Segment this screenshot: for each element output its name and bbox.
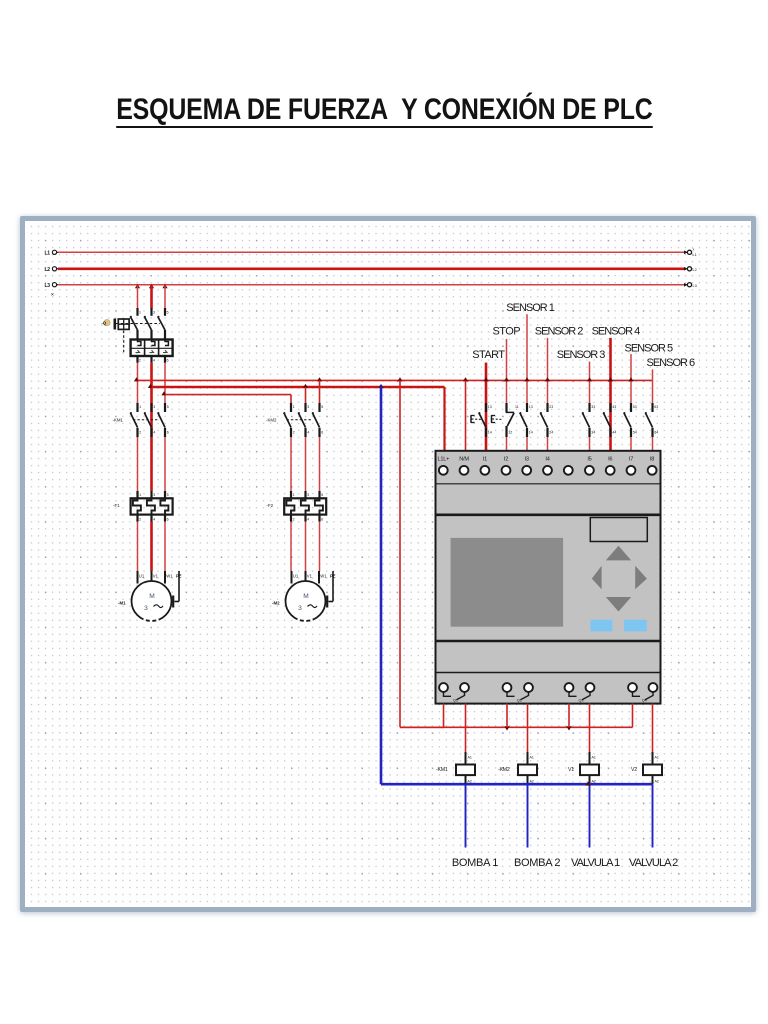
junction on L3 rail pole 2 (149, 284, 154, 288)
PLC nav button left (592, 566, 602, 590)
junction feed A at SENSOR 1 (524, 377, 529, 381)
svg-text:1: 1 (139, 493, 141, 497)
wire SENSOR 6 to contact (652, 369, 654, 403)
label SENSOR 1 (506, 302, 555, 314)
svg-text:1: 1 (293, 493, 295, 497)
svg-text:1: 1 (293, 405, 295, 409)
svg-text:5: 5 (167, 311, 169, 315)
svg-text:4: 4 (307, 518, 309, 522)
contact S7 SENSOR 5 (623, 403, 636, 437)
svg-text:SENSOR 3: SENSOR 3 (557, 349, 606, 361)
PLC module U1 body (436, 451, 661, 704)
PLC key ESC blue (591, 620, 613, 632)
contact S6 SENSOR 4 (603, 403, 616, 437)
label SENSOR 5 (625, 343, 674, 355)
svg-text:BOMBA 2: BOMBA 2 (514, 857, 560, 869)
label START (472, 349, 505, 361)
label SENSOR 2 (535, 326, 584, 338)
PLC output relay Q2 (503, 683, 533, 702)
svg-text:4: 4 (153, 359, 155, 363)
svg-text:N/M: N/M (459, 457, 469, 463)
PLC LCD display (451, 538, 563, 627)
junction feed A at START (483, 377, 488, 381)
svg-text:Q2: Q2 (517, 699, 522, 703)
coil -KM2 label (498, 767, 510, 773)
svg-text:4: 4 (153, 431, 155, 435)
junction feed A at SENSOR 2 (545, 377, 550, 381)
title text (0, 93, 768, 127)
svg-text:-M1: -M1 (118, 601, 126, 606)
svg-text:6: 6 (167, 359, 169, 363)
wire feed line B horizontal (152, 386, 445, 389)
junction feed line B at pole2 (148, 384, 153, 388)
contactor KM2 linkage (287, 419, 313, 421)
wire feed line A horizontal (138, 379, 653, 381)
svg-text:3: 3 (153, 405, 155, 409)
wire output common bus (400, 726, 633, 728)
label VALVULA 2 (629, 857, 678, 869)
contactor KM2 label (266, 417, 277, 422)
wire feed to KM2 pole3 (319, 380, 321, 403)
wire KM1 pole1 to F1 (137, 437, 139, 491)
svg-text:L1L+: L1L+ (437, 457, 449, 463)
PLC output relay Q3 (565, 683, 595, 702)
PLC output relay Q4 (628, 683, 657, 702)
breaker Q1 bottom pins (138, 356, 169, 363)
overload relay F1 (131, 491, 173, 522)
svg-text:SENSOR 1: SENSOR 1 (506, 302, 555, 314)
svg-text:2: 2 (139, 431, 141, 435)
svg-text:L1: L1 (693, 253, 697, 257)
svg-text:14: 14 (488, 431, 492, 435)
wire SENSOR 2 to contact (547, 338, 549, 403)
PLC nav button down (606, 597, 631, 612)
wire L2 rail (58, 267, 685, 270)
svg-text:STOP: STOP (493, 326, 521, 338)
coil -KM2 (518, 752, 537, 784)
wire START contact to PLC input (485, 437, 488, 451)
junction neutral bus (585, 781, 590, 785)
svg-text:SENSOR 2: SENSOR 2 (535, 326, 584, 338)
junction feed A output riser (397, 377, 402, 381)
contactor KM1 pole 2 (144, 403, 155, 437)
svg-text:L2: L2 (45, 267, 51, 273)
wire neutral bus blue (466, 783, 653, 786)
svg-text:4: 4 (153, 518, 155, 522)
svg-text:VALVULA 1: VALVULA 1 (571, 857, 620, 869)
contact S4 SENSOR 2 (540, 403, 553, 437)
wire F1 to motor M1 W1 (164, 522, 166, 572)
svg-text:V1: V1 (153, 574, 159, 579)
svg-text:23: 23 (549, 405, 553, 409)
PLC output relay Q1 (439, 683, 469, 702)
junction feed line A at pole1 (134, 377, 139, 381)
svg-text:A1: A1 (468, 756, 472, 760)
junction feed A at SENSOR 3 (587, 377, 592, 381)
svg-text:-F1: -F1 (113, 503, 120, 508)
wire KM2 pole3 to F2 (319, 437, 321, 491)
wire L1 rail (58, 251, 684, 253)
svg-text:U1: U1 (293, 574, 299, 579)
contactor KM1 linkage (133, 419, 159, 421)
wire rail to breaker pole 1 (137, 285, 139, 308)
wire Q1 output to coil (465, 704, 467, 753)
wire F1 to motor M1 V1 (150, 522, 153, 572)
svg-text:43: 43 (612, 405, 616, 409)
svg-text:2: 2 (139, 359, 141, 363)
svg-text:-KM1: -KM1 (436, 767, 448, 773)
wire SENSOR 4 to contact (609, 338, 612, 403)
svg-text:L2: L2 (693, 268, 697, 272)
svg-text:54: 54 (633, 431, 637, 435)
svg-text:4: 4 (307, 431, 309, 435)
svg-text:24: 24 (549, 431, 553, 435)
junction feed A at SENSOR 5 (628, 377, 633, 381)
wire Q4 output to coil (652, 704, 654, 753)
svg-text:1: 1 (139, 405, 141, 409)
svg-text:44: 44 (612, 431, 616, 435)
node L1 terminal left (45, 250, 59, 257)
junction feed B KM2 pole2 (303, 384, 308, 388)
svg-text:A1: A1 (530, 756, 534, 760)
svg-text:L1: L1 (45, 251, 51, 257)
wire Q1 common drop (443, 704, 445, 728)
wire KM2 pole2 to F2 (305, 437, 307, 491)
wire Q2 output to coil (527, 704, 529, 753)
svg-text:1: 1 (139, 311, 141, 315)
contactor KM1 label (113, 417, 124, 422)
wire SENSOR 3 to contact (589, 362, 591, 403)
wire output common riser (400, 380, 444, 727)
svg-text:✕: ✕ (51, 292, 55, 297)
wire Q2 common drop (506, 704, 508, 728)
svg-text:W1: W1 (320, 574, 327, 579)
svg-text:33: 33 (591, 405, 595, 409)
wire feed A to PLC N/M terminal (465, 380, 467, 450)
motor M2 label (272, 601, 280, 606)
coil V1 (580, 752, 599, 784)
svg-text:I4: I4 (545, 457, 549, 463)
label VALVULA 1 (571, 857, 620, 869)
wire F2 to motor M2 V1 (305, 522, 307, 572)
svg-text:-KM2: -KM2 (498, 767, 510, 773)
wire SENSOR 1 contact to PLC input (526, 437, 528, 451)
node L3 terminal left (45, 283, 59, 297)
contactor KM1 pole 3 (157, 403, 168, 437)
junction feed A at STOP (504, 377, 509, 381)
svg-text:Q3: Q3 (578, 699, 583, 703)
junction feed line C at pole3 (161, 391, 166, 395)
wire coil -KM1 to load (465, 784, 467, 847)
contact S1 START (471, 403, 492, 437)
svg-text:5: 5 (321, 493, 323, 497)
contactor KM2 pole 1 (283, 403, 294, 437)
wire STOP contact to PLC input (506, 437, 508, 451)
svg-text:SENSOR 4: SENSOR 4 (592, 326, 641, 338)
breaker Q1 thermal block (131, 340, 173, 357)
svg-text:I1: I1 (483, 457, 487, 463)
breaker Q1 actuator (115, 319, 129, 330)
wire feed B to PLC L+ terminal (443, 387, 445, 451)
wire F2 to motor M2 W1 (319, 522, 321, 572)
svg-text:V1: V1 (307, 574, 313, 579)
svg-text:x: x (693, 248, 695, 252)
wire coil -KM2 to load (527, 784, 529, 847)
junction feed A at SENSOR 4 (608, 377, 613, 381)
coil -KM1 label (436, 767, 448, 773)
wire START to contact (485, 363, 488, 403)
wire SENSOR 1 to contact (526, 314, 528, 403)
label BOMBA 2 (514, 857, 560, 869)
svg-text:I2: I2 (504, 457, 508, 463)
svg-text:A1: A1 (592, 756, 596, 760)
wire feed to KM2 pole1 (290, 395, 292, 403)
node L3 terminal right (684, 283, 697, 289)
breaker Q1 trip linkage (123, 331, 125, 353)
svg-text:2: 2 (139, 518, 141, 522)
svg-text:12: 12 (508, 431, 512, 435)
svg-text:U1: U1 (139, 574, 145, 579)
svg-text:13: 13 (488, 405, 492, 409)
wire rail to breaker pole 3 (164, 285, 166, 308)
wire rail to breaker pole 2 (150, 285, 153, 308)
svg-text:6: 6 (321, 431, 323, 435)
svg-text:I7: I7 (629, 457, 633, 463)
breaker Q1 designator label (102, 319, 111, 325)
PLC top terminal screws (439, 466, 657, 475)
svg-text:-F2: -F2 (267, 503, 274, 508)
svg-text:11: 11 (515, 405, 519, 409)
breaker Q1 pole 2 contact (144, 308, 155, 340)
svg-text:A2: A2 (655, 780, 659, 784)
svg-text:6: 6 (167, 431, 169, 435)
svg-text:M: M (149, 593, 155, 600)
junction on L3 rail pole 1 (135, 284, 140, 288)
svg-text:5: 5 (167, 493, 169, 497)
PLC key OK blue (624, 620, 647, 632)
contactor KM2 pole 2 (298, 403, 309, 437)
label SENSOR 4 (592, 326, 641, 338)
svg-text:Q1: Q1 (453, 699, 458, 703)
svg-text:-Q: -Q (102, 321, 107, 326)
svg-text:I8: I8 (650, 457, 654, 463)
junction common bus Q2 (504, 726, 509, 730)
breaker Q1 mechanical linkage (116, 323, 160, 325)
svg-text:M: M (303, 593, 309, 600)
svg-text:A1: A1 (655, 756, 659, 760)
svg-text:W1: W1 (166, 574, 173, 579)
svg-text:64: 64 (654, 431, 658, 435)
breaker Q1 pole 1 contact (130, 308, 141, 340)
wire breaker pole2 to KM1 (150, 363, 153, 403)
wire breaker pole3 to KM1 (164, 363, 166, 403)
label STOP (493, 326, 521, 338)
motor M2 (286, 571, 336, 621)
contact S5 SENSOR 3 (582, 403, 595, 437)
wire KM2 pole1 to F2 (290, 437, 292, 491)
label SENSOR 6 (647, 357, 696, 369)
svg-text:START: START (472, 349, 505, 361)
svg-text:5: 5 (167, 405, 169, 409)
svg-text:63: 63 (654, 405, 658, 409)
svg-text:13: 13 (529, 405, 533, 409)
svg-text:SENSOR 5: SENSOR 5 (625, 343, 674, 355)
wire L3 rail (58, 284, 684, 286)
junction feed B neutral riser (378, 384, 383, 388)
wire SENSOR 5 contact to PLC input (630, 437, 632, 451)
wire coil V1 to load (589, 784, 591, 847)
wire feed to KM2 pole2 (305, 387, 307, 403)
coil V1 label (568, 767, 574, 773)
schematic frame border (20, 216, 756, 912)
node L1 terminal right (684, 248, 697, 258)
svg-text:3: 3 (307, 493, 309, 497)
junction feed A at SENSOR 6 (0, 0, 1, 1)
svg-text:L3: L3 (693, 284, 697, 288)
motor M1 (132, 571, 182, 621)
svg-text:3: 3 (307, 405, 309, 409)
wire F2 to motor M2 U1 (290, 522, 292, 572)
junction on L3 rail pole 3 (162, 284, 167, 288)
svg-text:3: 3 (153, 311, 155, 315)
svg-text:3: 3 (298, 605, 302, 612)
PLC expansion slot rectangle (590, 518, 647, 542)
wire SENSOR 6 contact to PLC input (652, 437, 654, 451)
coil V2 label (631, 767, 637, 773)
svg-text:3: 3 (144, 605, 148, 612)
wire SENSOR 4 contact to PLC input (609, 437, 612, 451)
label BOMBA 1 (452, 857, 498, 869)
svg-text:34: 34 (591, 431, 595, 435)
coil -KM1 (456, 752, 475, 784)
wire SENSOR 2 contact to PLC input (547, 437, 549, 451)
node L2 terminal right (684, 267, 697, 273)
svg-text:2: 2 (293, 518, 295, 522)
contact S2 STOP (491, 403, 518, 437)
svg-text:6: 6 (167, 518, 169, 522)
svg-text:53: 53 (633, 405, 637, 409)
wire Q4 common drop (632, 704, 634, 728)
PLC nav button up (606, 546, 631, 561)
svg-text:I3: I3 (525, 457, 529, 463)
PLC nav button right (635, 566, 647, 590)
overload relay F2 (284, 491, 326, 522)
svg-text:3: 3 (153, 493, 155, 497)
label SENSOR 3 (557, 349, 606, 361)
svg-text:6: 6 (321, 518, 323, 522)
svg-text:2: 2 (293, 431, 295, 435)
svg-text:L3: L3 (45, 283, 51, 289)
motor M1 label (118, 601, 126, 606)
svg-text:Q4: Q4 (642, 699, 647, 703)
wire Q3 common drop (568, 704, 570, 728)
svg-text:I6: I6 (608, 457, 612, 463)
wire KM1 pole3 to F1 (164, 437, 166, 491)
svg-text:V2: V2 (631, 767, 637, 773)
wire STOP to contact (506, 339, 508, 403)
wire breaker pole1 to KM1 (137, 363, 139, 403)
contactor KM1 pole 1 (130, 403, 141, 437)
svg-text:VALVULA 2: VALVULA 2 (629, 857, 678, 869)
overload relay F1 label (113, 503, 120, 508)
junction common bus Q3 (566, 726, 571, 730)
node L2 terminal left (45, 267, 59, 274)
overload relay F2 label (267, 503, 274, 508)
wire SENSOR 3 contact to PLC input (589, 437, 591, 451)
wire neutral riser blue (381, 387, 466, 784)
junction feed A at N/M drop (463, 377, 468, 381)
coil V2 (643, 752, 662, 784)
junction feed A KM2 pole3 (317, 377, 322, 381)
svg-text:-M2: -M2 (272, 601, 280, 606)
contact S3 SENSOR 1 (519, 403, 532, 437)
wire feed line C horizontal (165, 394, 291, 396)
wire SENSOR 5 to contact (630, 354, 632, 403)
contact S8 SENSOR 6 (645, 403, 658, 437)
svg-text:14: 14 (529, 431, 533, 435)
svg-text:BOMBA 1: BOMBA 1 (452, 857, 498, 869)
wire coil V2 to load (652, 784, 654, 847)
svg-text:I5: I5 (587, 457, 591, 463)
wire Q3 output to coil (589, 704, 591, 753)
wire KM1 pole2 to F1 (150, 437, 153, 491)
svg-text:V1: V1 (568, 767, 574, 773)
svg-text:SENSOR 6: SENSOR 6 (647, 357, 696, 369)
svg-text:-KM1: -KM1 (113, 417, 124, 422)
breaker Q1 pole 3 contact (157, 308, 168, 340)
svg-text:5: 5 (321, 405, 323, 409)
contactor KM2 pole 3 (312, 403, 323, 437)
wire F1 to motor M1 U1 (137, 522, 139, 572)
PLC top terminal labels (437, 457, 654, 463)
svg-text:-KM2: -KM2 (266, 417, 277, 422)
